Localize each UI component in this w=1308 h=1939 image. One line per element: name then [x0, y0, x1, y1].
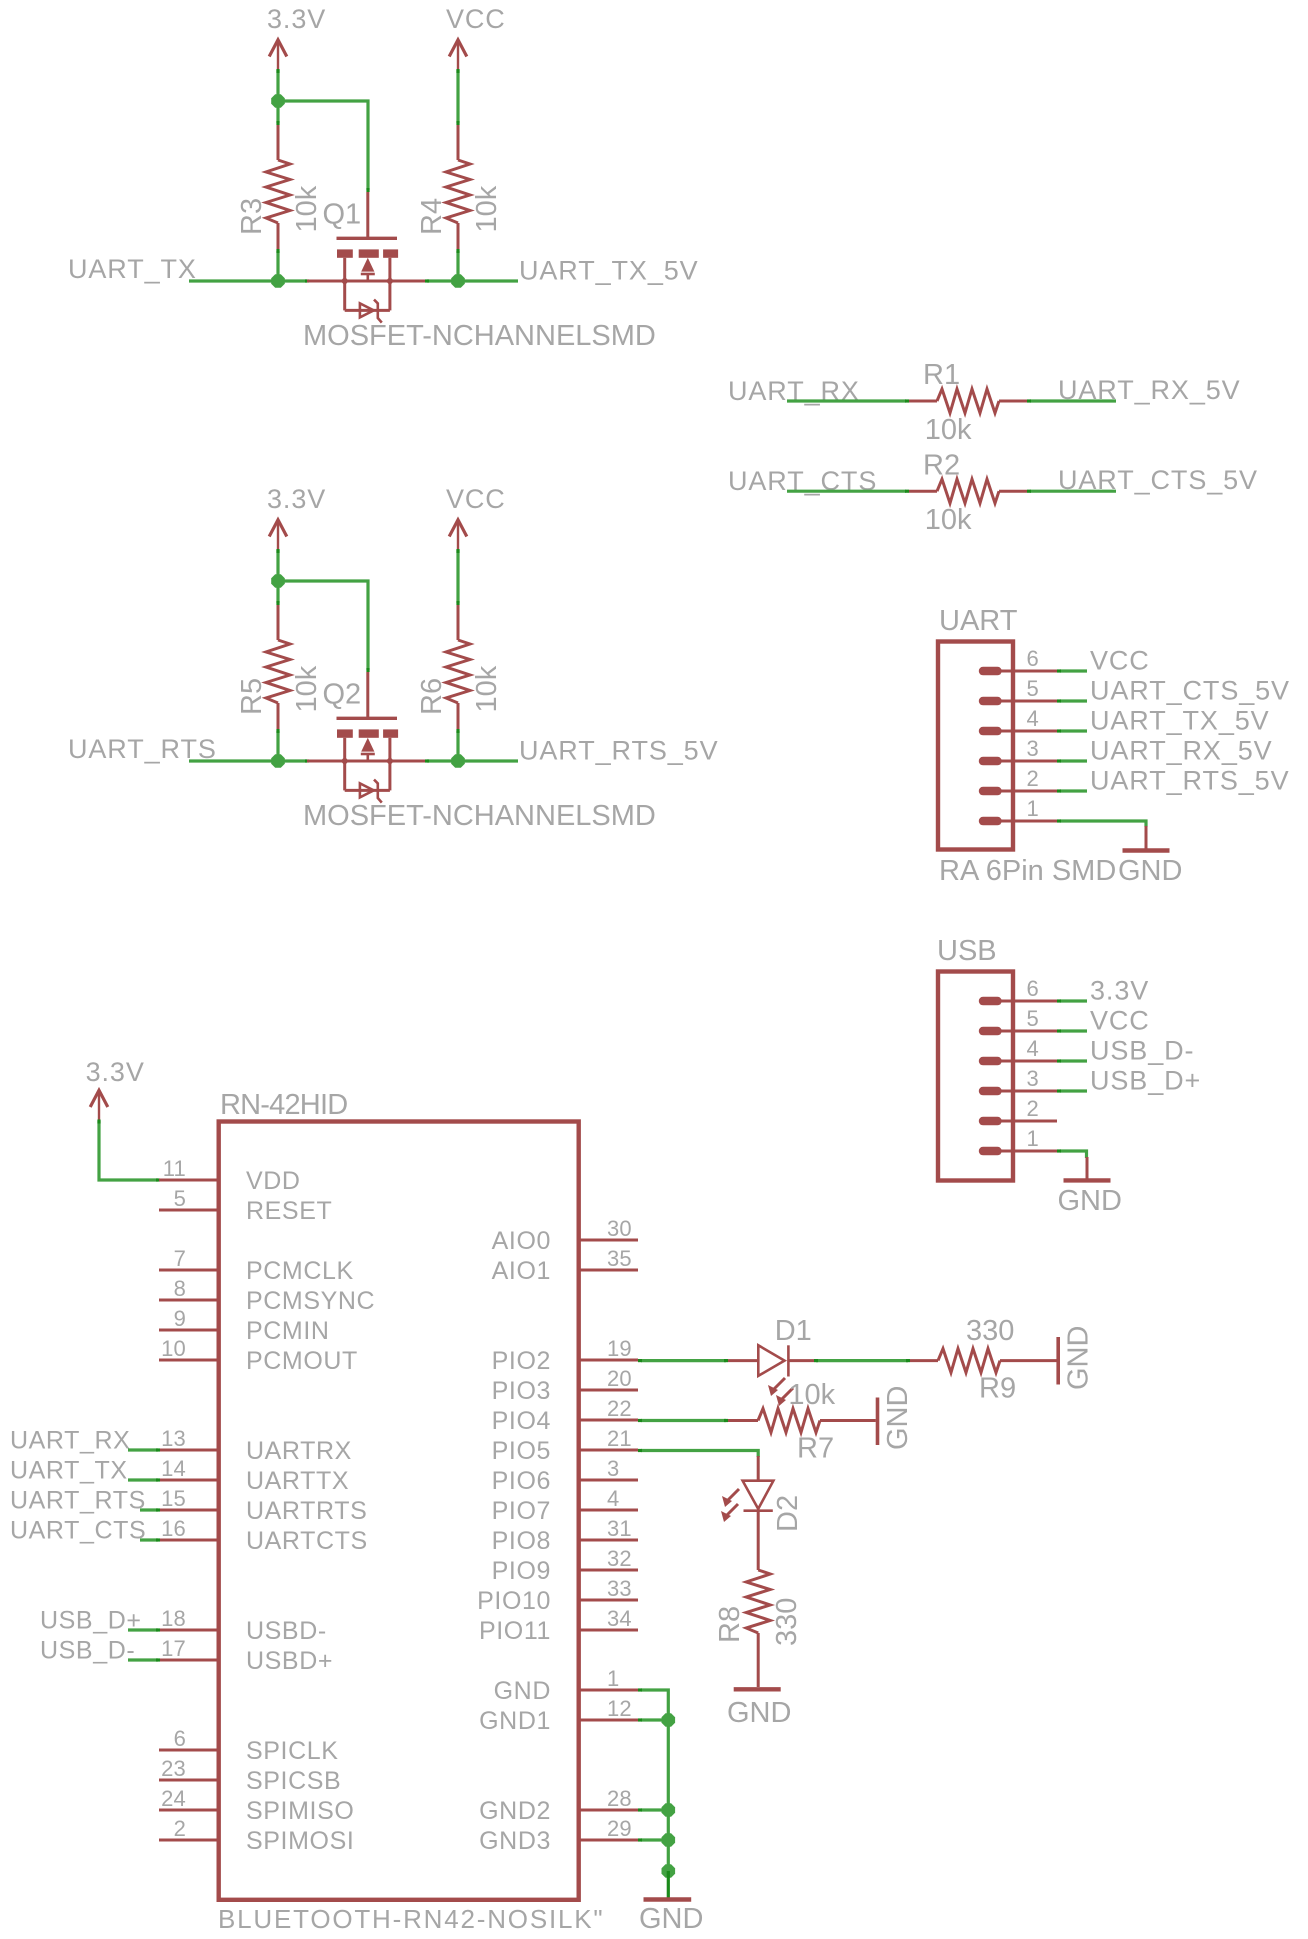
svg-text:10k: 10k [788, 1379, 835, 1411]
junction at 3.3V branch [271, 574, 285, 588]
svg-text:GND2: GND2 [479, 1797, 551, 1825]
wire UART_RX_5V [1027, 399, 1116, 402]
wire UART_CTS_5V [1027, 490, 1116, 493]
svg-text:22: 22 [607, 1396, 632, 1421]
svg-text:PIO6: PIO6 [492, 1467, 551, 1495]
svg-text:Q2: Q2 [323, 678, 362, 710]
svg-text:USB_D+: USB_D+ [40, 1607, 142, 1635]
wire GND1 pin12 [638, 1718, 668, 1721]
svg-text:USB_D+: USB_D+ [1090, 1066, 1201, 1096]
svg-text:330: 330 [966, 1315, 1014, 1347]
svg-text:UARTRTS: UARTRTS [246, 1497, 367, 1525]
svg-text:PIO9: PIO9 [492, 1557, 551, 1585]
svg-text:PCMIN: PCMIN [246, 1317, 330, 1345]
wire junction to resistor [276, 581, 279, 605]
wire GND3 pin29 [638, 1838, 668, 1841]
wire GND pin1 [638, 1690, 668, 1871]
svg-text:RA 6Pin SMD: RA 6Pin SMD [939, 855, 1116, 887]
svg-text:MOSFET-NCHANNELSMD: MOSFET-NCHANNELSMD [303, 800, 656, 832]
svg-text:11: 11 [163, 1156, 186, 1181]
wire pin UART_TX_5V [1057, 729, 1087, 732]
svg-text:D1: D1 [775, 1315, 812, 1347]
svg-text:4: 4 [1027, 706, 1039, 731]
svg-text:UART_CTS_5V: UART_CTS_5V [1058, 465, 1258, 495]
wire 3.3V to junction [276, 69, 279, 101]
svg-text:9: 9 [174, 1306, 186, 1331]
svg-text:6: 6 [174, 1726, 186, 1751]
svg-text:PCMCLK: PCMCLK [246, 1257, 354, 1285]
wire resistor to net line [276, 249, 279, 281]
ground GND (UART) [1118, 826, 1182, 887]
svg-text:33: 33 [607, 1576, 632, 1601]
junction UART_TX [271, 274, 285, 288]
wire resistor to 5V net [456, 729, 459, 761]
svg-text:UART: UART [939, 605, 1018, 637]
supply VCC [446, 484, 506, 550]
svg-text:32: 32 [607, 1546, 632, 1571]
svg-text:R2: R2 [923, 449, 960, 481]
svg-text:UART_RTS_5V: UART_RTS_5V [1090, 766, 1289, 796]
svg-text:R7: R7 [797, 1433, 834, 1465]
svg-text:3.3V: 3.3V [267, 484, 326, 514]
wire PIO2 to D1 [638, 1359, 728, 1362]
svg-text:4: 4 [1027, 1036, 1039, 1061]
svg-text:3: 3 [607, 1456, 619, 1481]
resistor R7 10k [728, 1379, 876, 1465]
wire UART_TX [189, 279, 309, 282]
wire GND2 pin28 [638, 1808, 668, 1811]
svg-text:PIO8: PIO8 [492, 1527, 551, 1555]
svg-text:UART_RTS_5V: UART_RTS_5V [519, 736, 718, 766]
junction GND3 [662, 1833, 676, 1847]
svg-text:Q1: Q1 [323, 198, 362, 230]
svg-text:UARTCTS: UARTCTS [246, 1527, 368, 1555]
svg-text:GND: GND [639, 1903, 703, 1935]
wire junction to gate [278, 101, 368, 192]
svg-text:23: 23 [161, 1756, 186, 1781]
wire drain to UART_RTS_5V [425, 759, 518, 762]
wire pin UART_RTS_5V [1057, 789, 1087, 792]
junction UART_RTS [271, 754, 285, 768]
svg-text:AIO1: AIO1 [492, 1257, 551, 1285]
svg-text:SPICLK: SPICLK [246, 1737, 339, 1765]
svg-text:D2: D2 [772, 1495, 804, 1532]
svg-text:BLUETOOTH-RN42-NOSILK": BLUETOOTH-RN42-NOSILK" [218, 1904, 604, 1934]
svg-text:VCC: VCC [446, 4, 506, 34]
resistor R1 10k [909, 359, 1027, 446]
svg-text:PCMOUT: PCMOUT [246, 1347, 358, 1375]
svg-text:10: 10 [161, 1336, 186, 1361]
resistor R2 10k [909, 449, 1027, 536]
svg-text:12: 12 [607, 1696, 632, 1721]
svg-text:10k: 10k [291, 185, 323, 232]
svg-text:10k: 10k [925, 414, 972, 446]
wire UART_RTS [189, 759, 309, 762]
svg-text:USB_D-: USB_D- [40, 1637, 135, 1665]
wire junction to gate [278, 581, 368, 672]
svg-text:3.3V: 3.3V [86, 1057, 145, 1087]
svg-text:UART_TX_5V: UART_TX_5V [1090, 706, 1270, 736]
wire 3.3V to VDD [99, 1120, 160, 1181]
svg-text:UART_CTS: UART_CTS [10, 1517, 146, 1545]
junction GND2 [662, 1803, 676, 1817]
svg-text:USB: USB [937, 935, 997, 967]
svg-text:10k: 10k [291, 665, 323, 712]
svg-text:GND: GND [882, 1386, 914, 1450]
ground GND (IC) [639, 1871, 703, 1935]
supply 3.3V (IC) [86, 1057, 145, 1120]
wire pin UART_CTS_5V [1057, 699, 1087, 702]
svg-text:3.3V: 3.3V [1090, 976, 1149, 1006]
svg-text:2: 2 [1027, 1096, 1039, 1121]
diode D1 LED [728, 1315, 814, 1406]
svg-text:UART_CTS_5V: UART_CTS_5V [1090, 676, 1290, 706]
transistor Q1 MOSFET-NCHANNELSMD [303, 192, 656, 352]
wire UART_CTS (IC) [140, 1538, 160, 1541]
svg-text:13: 13 [161, 1426, 186, 1451]
wire VCC to resistor [456, 549, 459, 605]
svg-text:1: 1 [1027, 1126, 1039, 1151]
svg-text:1: 1 [1027, 796, 1039, 821]
wire VCC to resistor [456, 69, 459, 125]
svg-text:UART_RX_5V: UART_RX_5V [1090, 736, 1273, 766]
svg-text:4: 4 [607, 1486, 619, 1511]
resistor R6 10k [416, 605, 503, 730]
svg-text:31: 31 [607, 1516, 632, 1541]
wire drain to UART_TX_5V [425, 279, 518, 282]
svg-text:3: 3 [1027, 736, 1039, 761]
svg-text:UART_RX_5V: UART_RX_5V [1058, 375, 1241, 405]
svg-text:GND: GND [1063, 1326, 1095, 1390]
wire USB_D+ (IC) [128, 1628, 160, 1631]
wire pin USB_D+ [1057, 1089, 1087, 1092]
svg-text:17: 17 [161, 1636, 186, 1661]
svg-text:VCC: VCC [446, 484, 506, 514]
svg-text:GND: GND [727, 1697, 791, 1729]
resistor R4 10k [416, 125, 503, 250]
resistor R3 10k [236, 125, 323, 250]
svg-text:19: 19 [607, 1336, 632, 1361]
svg-text:MOSFET-NCHANNELSMD: MOSFET-NCHANNELSMD [303, 320, 656, 352]
svg-text:330: 330 [771, 1598, 803, 1646]
svg-text:10k: 10k [471, 665, 503, 712]
svg-text:GND: GND [494, 1677, 551, 1705]
wire resistor to 5V net [456, 249, 459, 281]
junction UART_TX_5V [451, 274, 465, 288]
wire UART_CTS [787, 490, 909, 493]
svg-text:USB_D-: USB_D- [1090, 1036, 1194, 1066]
wire 3.3V to junction [276, 549, 279, 581]
svg-text:R1: R1 [923, 359, 960, 391]
connector UART RA 6Pin SMD [938, 605, 1116, 887]
svg-text:UART_RX: UART_RX [10, 1427, 130, 1455]
svg-text:UART_TX: UART_TX [10, 1457, 128, 1485]
svg-text:7: 7 [174, 1246, 186, 1271]
svg-text:R3: R3 [236, 198, 268, 235]
svg-text:GND1: GND1 [479, 1707, 551, 1735]
svg-text:AIO0: AIO0 [492, 1227, 551, 1255]
resistor R9 330 [910, 1315, 1057, 1405]
svg-text:15: 15 [161, 1486, 186, 1511]
svg-text:PIO2: PIO2 [492, 1347, 551, 1375]
svg-text:R9: R9 [979, 1373, 1016, 1405]
ground GND (USB) [1058, 1157, 1122, 1217]
svg-text:SPIMOSI: SPIMOSI [246, 1827, 354, 1855]
wire UART_RX (IC) [128, 1448, 160, 1451]
svg-text:PIO10: PIO10 [477, 1587, 551, 1615]
wire pin VCC [1057, 1029, 1087, 1032]
svg-text:16: 16 [161, 1516, 186, 1541]
ground GND (R7, rotated) [878, 1386, 914, 1450]
svg-text:20: 20 [607, 1366, 632, 1391]
wire UART_RX [787, 399, 909, 402]
svg-text:5: 5 [174, 1186, 186, 1211]
wire pin UART_RX_5V [1057, 759, 1087, 762]
ground GND (R9, rotated) [1058, 1326, 1094, 1390]
junction GND1 [662, 1713, 676, 1727]
svg-text:8: 8 [174, 1276, 186, 1301]
svg-text:28: 28 [607, 1786, 632, 1811]
svg-text:UARTTX: UARTTX [246, 1467, 349, 1495]
wire USB_D- (IC) [128, 1658, 160, 1661]
wire pin VCC [1057, 669, 1087, 672]
svg-text:10k: 10k [925, 504, 972, 536]
wire UART_RTS (IC) [140, 1508, 160, 1511]
supply 3.3V [267, 484, 326, 550]
svg-text:34: 34 [607, 1606, 632, 1631]
svg-text:USBD-: USBD- [246, 1617, 327, 1645]
svg-text:RN-42HID: RN-42HID [220, 1089, 347, 1121]
svg-text:VCC: VCC [1090, 1006, 1150, 1036]
svg-text:SPICSB: SPICSB [246, 1767, 341, 1795]
wire junction to resistor [276, 101, 279, 125]
svg-text:R8: R8 [714, 1606, 746, 1643]
svg-text:30: 30 [607, 1216, 632, 1241]
svg-text:PIO11: PIO11 [479, 1617, 551, 1645]
wire D1 to R9 [814, 1359, 910, 1362]
svg-text:6: 6 [1027, 976, 1039, 1001]
ground GND (R8) [727, 1689, 791, 1729]
wire UART_TX (IC) [128, 1478, 160, 1481]
svg-text:35: 35 [607, 1246, 632, 1271]
svg-text:VDD: VDD [246, 1167, 301, 1195]
svg-text:5: 5 [1027, 676, 1039, 701]
svg-text:1: 1 [607, 1666, 619, 1691]
svg-text:UART_TX_5V: UART_TX_5V [519, 256, 699, 286]
svg-text:R4: R4 [416, 198, 448, 235]
svg-text:5: 5 [1027, 1006, 1039, 1031]
svg-text:GND: GND [1118, 855, 1182, 887]
svg-text:PIO7: PIO7 [492, 1497, 551, 1525]
svg-text:USBD+: USBD+ [246, 1647, 333, 1675]
svg-text:3: 3 [1027, 1066, 1039, 1091]
svg-text:PCMSYNC: PCMSYNC [246, 1287, 375, 1315]
junction GND bottom [662, 1864, 676, 1878]
svg-text:14: 14 [161, 1456, 186, 1481]
wire pin USB_D- [1057, 1059, 1087, 1062]
svg-text:SPIMISO: SPIMISO [246, 1797, 354, 1825]
resistor R8 330 [714, 1511, 803, 1687]
wire PIO5 to D2 [638, 1451, 758, 1458]
junction UART_RTS_5V [451, 754, 465, 768]
svg-text:R6: R6 [416, 678, 448, 715]
svg-text:UART_TX: UART_TX [68, 254, 197, 284]
wire pin 3.3V [1057, 999, 1087, 1002]
wire pin1 to ground [1057, 1151, 1087, 1158]
svg-text:2: 2 [174, 1816, 186, 1841]
svg-text:R5: R5 [236, 678, 268, 715]
svg-text:10k: 10k [471, 185, 503, 232]
svg-text:PIO3: PIO3 [492, 1377, 551, 1405]
svg-text:21: 21 [607, 1426, 632, 1451]
transistor Q2 MOSFET-NCHANNELSMD [303, 672, 656, 832]
svg-text:29: 29 [607, 1816, 632, 1841]
svg-text:PIO5: PIO5 [492, 1437, 551, 1465]
svg-text:24: 24 [161, 1786, 186, 1811]
connector USB [937, 935, 1057, 1181]
ic RN-42HID BLUETOOTH-RN42-NOSILK [159, 1089, 638, 1934]
svg-text:3.3V: 3.3V [267, 4, 326, 34]
svg-text:GND3: GND3 [479, 1827, 551, 1855]
supply 3.3V [267, 4, 326, 70]
svg-text:2: 2 [1027, 766, 1039, 791]
wire PIO4 to R7 [638, 1419, 728, 1422]
svg-text:RESET: RESET [246, 1197, 332, 1225]
supply VCC [446, 4, 506, 70]
svg-text:PIO4: PIO4 [492, 1407, 551, 1435]
junction at 3.3V branch [271, 94, 285, 108]
svg-text:GND: GND [1058, 1185, 1122, 1217]
wire resistor to net line [276, 729, 279, 761]
wire pin1 to ground [1057, 821, 1146, 827]
svg-text:VCC: VCC [1090, 646, 1150, 676]
diode D2 LED [721, 1456, 804, 1532]
svg-text:UART_RTS: UART_RTS [10, 1487, 146, 1515]
svg-text:18: 18 [161, 1606, 186, 1631]
svg-text:UARTRX: UARTRX [246, 1437, 352, 1465]
svg-text:6: 6 [1027, 646, 1039, 671]
resistor R5 10k [236, 605, 323, 730]
